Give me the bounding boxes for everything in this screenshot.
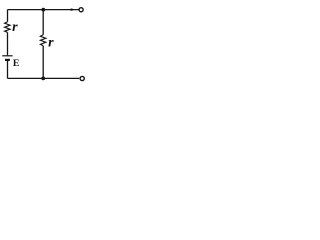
svg-text:r: r <box>12 20 18 35</box>
svg-text:E: E <box>13 58 20 69</box>
svg-text:r: r <box>48 36 54 51</box>
